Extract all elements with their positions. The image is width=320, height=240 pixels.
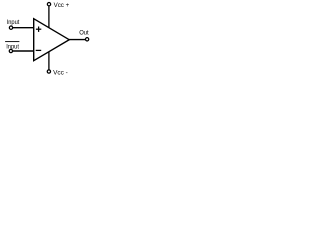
- svg-text:Vcc +: Vcc +: [54, 2, 70, 9]
- svg-text:Vcc -: Vcc -: [53, 69, 68, 76]
- svg-text:Input: Input: [7, 19, 20, 26]
- svg-text:Out: Out: [79, 30, 89, 37]
- svg-text:Input: Input: [6, 43, 19, 50]
